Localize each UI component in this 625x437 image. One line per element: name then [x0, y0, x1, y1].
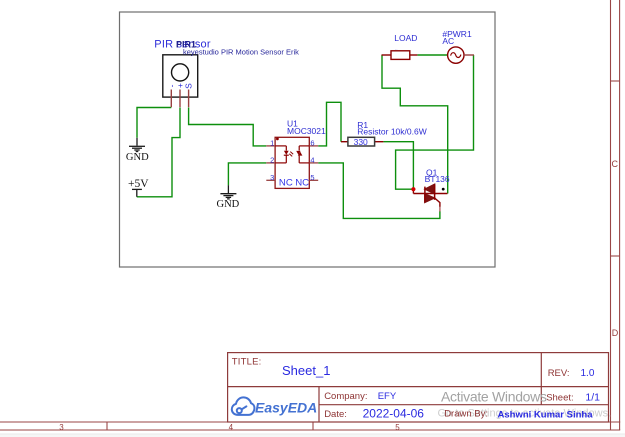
- svg-text:6: 6: [310, 138, 314, 147]
- svg-text:330: 330: [354, 137, 368, 147]
- svg-text:D: D: [612, 328, 619, 338]
- svg-text:4: 4: [310, 155, 314, 164]
- svg-text:2: 2: [270, 155, 274, 164]
- svg-text:GND: GND: [217, 199, 240, 210]
- svg-text:TITLE:: TITLE:: [232, 356, 262, 367]
- svg-text:GND: GND: [126, 152, 149, 163]
- svg-text:5: 5: [310, 173, 314, 182]
- svg-text:EFY: EFY: [378, 391, 397, 402]
- svg-text:AC: AC: [442, 36, 454, 46]
- svg-text:1: 1: [270, 138, 274, 147]
- svg-text:1/1: 1/1: [585, 392, 600, 404]
- svg-text:Date:: Date:: [324, 409, 347, 420]
- svg-text:REV:: REV:: [548, 368, 570, 379]
- svg-text:..: ..: [395, 46, 397, 51]
- svg-text:1.0: 1.0: [581, 368, 595, 379]
- svg-text:+5V: +5V: [128, 178, 149, 190]
- svg-text:S: S: [184, 83, 194, 89]
- svg-text:BT136: BT136: [425, 174, 450, 184]
- svg-text:keyestudio PIR Motion Sensor E: keyestudio PIR Motion Sensor Erik: [183, 48, 299, 57]
- svg-text:3: 3: [270, 173, 274, 182]
- svg-text:Sheet_1: Sheet_1: [282, 363, 330, 378]
- svg-text:2022-04-06: 2022-04-06: [363, 407, 425, 421]
- svg-text:4: 4: [229, 423, 234, 432]
- svg-text:C: C: [612, 159, 619, 169]
- svg-text:Ashwni Kumar Sinha: Ashwni Kumar Sinha: [498, 409, 594, 420]
- svg-text:Activate Windows: Activate Windows: [441, 389, 547, 405]
- svg-text:5: 5: [395, 423, 400, 432]
- svg-text:LOAD: LOAD: [394, 33, 417, 43]
- svg-text:3: 3: [59, 423, 64, 432]
- svg-text:Resistor 10k/0.6W: Resistor 10k/0.6W: [357, 127, 426, 137]
- svg-text:Drawn By:: Drawn By:: [444, 409, 488, 420]
- svg-text:EasyEDA: EasyEDA: [255, 399, 317, 415]
- svg-text:NC: NC: [295, 177, 309, 188]
- svg-text:Sheet:: Sheet:: [546, 393, 573, 404]
- svg-text:MOC3021: MOC3021: [287, 126, 326, 136]
- svg-text:Company:: Company:: [324, 391, 367, 402]
- svg-text:NC: NC: [279, 177, 293, 188]
